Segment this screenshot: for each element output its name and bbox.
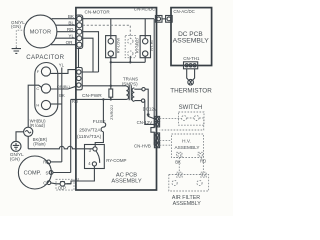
wire cap H to vertical V1 (51, 103, 62, 105)
comp terminal C (43, 181, 51, 186)
wire CN-PWR pin1 right (82, 71, 98, 73)
motor M1 (24, 15, 57, 48)
wire V2 vertical to COMP S (70, 99, 72, 172)
connector CN-12V pin1 (154, 116, 159, 121)
wire plug line to fuse wire (27, 136, 29, 148)
box AC PCB ASSEMBLY (76, 8, 157, 190)
wire S terminal to V3 (53, 172, 71, 174)
connector CN-PWR (76, 68, 83, 90)
connector CN-HVB pin3 (154, 143, 159, 148)
svg-text:CN-12V: CN-12V (137, 120, 153, 125)
wire YL pin to junction (83, 38, 93, 72)
svg-text:OLP: OLP (58, 186, 67, 191)
svg-text:CN-TH1: CN-TH1 (183, 56, 200, 61)
svg-text:COMP.: COMP. (24, 171, 42, 177)
svg-text:BL: BL (68, 21, 74, 26)
wire dashed CN-12V to switch (160, 117, 182, 119)
relay RY-COMP (85, 145, 105, 169)
wire C terminal to OLP (51, 182, 60, 185)
svg-text:BK: BK (175, 160, 181, 165)
svg-text:SWITCH: SWITCH (179, 105, 203, 111)
svg-text:C: C (43, 181, 46, 186)
wire motor BK to pin1 (52, 18, 76, 20)
svg-text:TRANS: TRANS (123, 76, 138, 81)
svg-text:R: R (43, 160, 46, 165)
connector CN-AC/DC square 1 (155, 16, 162, 23)
node GN/YL (GN) top label (11, 20, 25, 29)
svg-text:RD: RD (67, 27, 74, 32)
capacitor C1 body (35, 63, 58, 117)
svg-text:ZNR02J: ZNR02J (109, 105, 114, 120)
svg-text:RY-COMP: RY-COMP (106, 158, 126, 163)
svg-text:RY-HI: RY-HI (149, 40, 154, 50)
wire CN-PWR pin3 to bus (82, 85, 126, 87)
connector CN-AC/DC square 2 (166, 16, 173, 23)
wire BK bus top (83, 18, 154, 20)
wire sec1 to CN-12V pin1 (145, 89, 154, 119)
wire motor RD to pin3 (57, 31, 76, 33)
svg-text:(R load): (R load) (30, 123, 46, 128)
svg-text:(Plain): (Plain) (33, 142, 46, 147)
wire RD branch into box (71, 98, 111, 100)
svg-text:CN-AC/DC: CN-AC/DC (134, 7, 155, 12)
svg-text:MOTOR: MOTOR (30, 29, 52, 35)
svg-text:ASSEMBLY: ASSEMBLY (111, 178, 141, 184)
wire motor OR to pin5 (51, 44, 76, 46)
svg-text:(SMPS): (SMPS) (122, 82, 138, 87)
junction dot RY-MED (129, 61, 131, 63)
svg-text:OR(BL): OR(BL) (57, 84, 71, 89)
wire fuse line from junction to relay (95, 99, 106, 146)
svg-text:CN-MOTOR: CN-MOTOR (85, 9, 111, 14)
wire RY-LOW top feed (110, 19, 112, 39)
relay RY-MED dashed (125, 36, 139, 58)
ground earth circle bottom (11, 141, 21, 151)
wire motor YL to pin4 (55, 37, 76, 39)
svg-text:ASSEMBLY: ASSEMBLY (175, 145, 201, 150)
wire dashed CN-HVB to HV box (160, 141, 172, 146)
svg-text:RD: RD (200, 158, 206, 163)
ground earth symbol top (12, 47, 21, 53)
svg-text:BL: BL (75, 177, 81, 182)
comp terminal S (46, 171, 53, 176)
wire dashed switch return (160, 118, 204, 130)
relay RY-LOW (106, 36, 121, 58)
comp terminal R (43, 160, 50, 165)
svg-text:ASSEMBLY: ASSEMBLY (173, 37, 210, 44)
svg-text:RY-MED: RY-MED (134, 38, 139, 53)
transformer T1 primary (111, 86, 129, 99)
transformer core (129, 85, 131, 100)
connector HV out right (198, 152, 203, 157)
relay RY-HI (140, 36, 154, 58)
transformer secondary (132, 88, 142, 102)
protector OLP (56, 179, 74, 190)
svg-text:H.V.: H.V. (182, 139, 191, 144)
svg-text:ASSEMBLY: ASSEMBLY (173, 201, 202, 207)
varistor ZNR02J (109, 86, 114, 120)
svg-text:BK: BK (68, 14, 75, 19)
capacitor terminal F (37, 67, 51, 76)
connector air filter pin left (177, 172, 182, 177)
wire relay bottoms bus (111, 56, 145, 62)
svg-text:YL: YL (68, 34, 74, 39)
svg-text:THERMISTOR: THERMISTOR (170, 88, 212, 95)
junction dot RY-LOW (110, 61, 112, 63)
box DC PCB ASSEMBLY (171, 8, 212, 66)
svg-text:CN-HVB: CN-HVB (134, 143, 151, 148)
svg-text:CAPACITOR: CAPACITOR (26, 54, 64, 61)
svg-text:FUSE: FUSE (93, 119, 106, 125)
svg-text:(GN): (GN) (10, 157, 20, 162)
ac plug source P1 (24, 127, 33, 136)
svg-text:(115V/T3A): (115V/T3A) (77, 134, 102, 140)
svg-text:CN-AC/DC: CN-AC/DC (173, 9, 194, 14)
svg-text:S: S (46, 171, 49, 176)
junction dot fuse line (102, 98, 104, 100)
wire BL dashed to RY-MED (83, 25, 131, 38)
wire sec2 to CN-12V pin2 (145, 101, 155, 125)
junction dot DC12V (147, 113, 150, 116)
transformer secondary terminal 1 (142, 88, 145, 91)
svg-text:C: C (36, 86, 39, 91)
wire BK bus down right side (151, 19, 154, 146)
svg-text:250V/T2A: 250V/T2A (79, 128, 101, 134)
connector CN-HVB pin1 (154, 133, 159, 138)
wire plug earth (16, 132, 24, 142)
wire dashed earth to motor (16, 30, 24, 47)
connector CN-12V pin2 (154, 122, 159, 127)
wire CN-TH1 to thermistor (187, 69, 195, 80)
svg-text:CN-PWR: CN-PWR (82, 93, 102, 99)
box H.V. ASSEMBLY dashed (172, 134, 204, 158)
wire V1 vertical to COMP R (61, 68, 63, 162)
box AIR FILTER dashed (169, 175, 209, 192)
connector air filter pin right (201, 172, 206, 177)
wire bus down to transformer (110, 62, 112, 86)
capacitor terminal C (36, 84, 50, 93)
connector CN-HVB pin2 (154, 138, 159, 143)
wire motor BL to pin2 (56, 24, 76, 26)
capacitor terminal H (36, 100, 50, 109)
svg-text:OR: OR (66, 40, 74, 45)
connector CN-MOTOR (76, 15, 83, 48)
wire line to RY-COMP pin3 with hops (28, 146, 93, 149)
svg-text:H: H (36, 103, 39, 108)
switch S1 dashed box (179, 112, 205, 125)
wire dashed BK to air filter (178, 158, 180, 173)
junction dot bus bottom (110, 98, 112, 100)
wire cap C to CN-PWR pin3 (51, 86, 76, 89)
wire plug neutral to cap C (28, 85, 42, 127)
transformer secondary terminal 2 (141, 99, 144, 102)
wire dashed RD to air filter (201, 158, 204, 173)
wire RD pin to junction (83, 32, 99, 72)
connector HV out left (177, 152, 182, 157)
svg-text:YL: YL (59, 62, 65, 67)
wire R terminal to V1 (51, 161, 62, 163)
junction dot bus top (110, 85, 112, 87)
wire between CN-AC/DC squares (162, 18, 166, 20)
thermistor TH1 (188, 79, 194, 85)
compressor COMP (18, 156, 51, 189)
wire RY-HI top feed (144, 19, 146, 39)
wire RY-COMP pin4 to BL exit (67, 166, 95, 184)
connector CN-TH1 (184, 62, 198, 69)
wire CN-MOTOR bottom to CN-PWR top (78, 48, 80, 67)
wire cap F to CN-PWR pin1 (51, 70, 76, 74)
svg-text:RY-LOW: RY-LOW (115, 38, 120, 54)
svg-text:(GN): (GN) (11, 24, 21, 29)
